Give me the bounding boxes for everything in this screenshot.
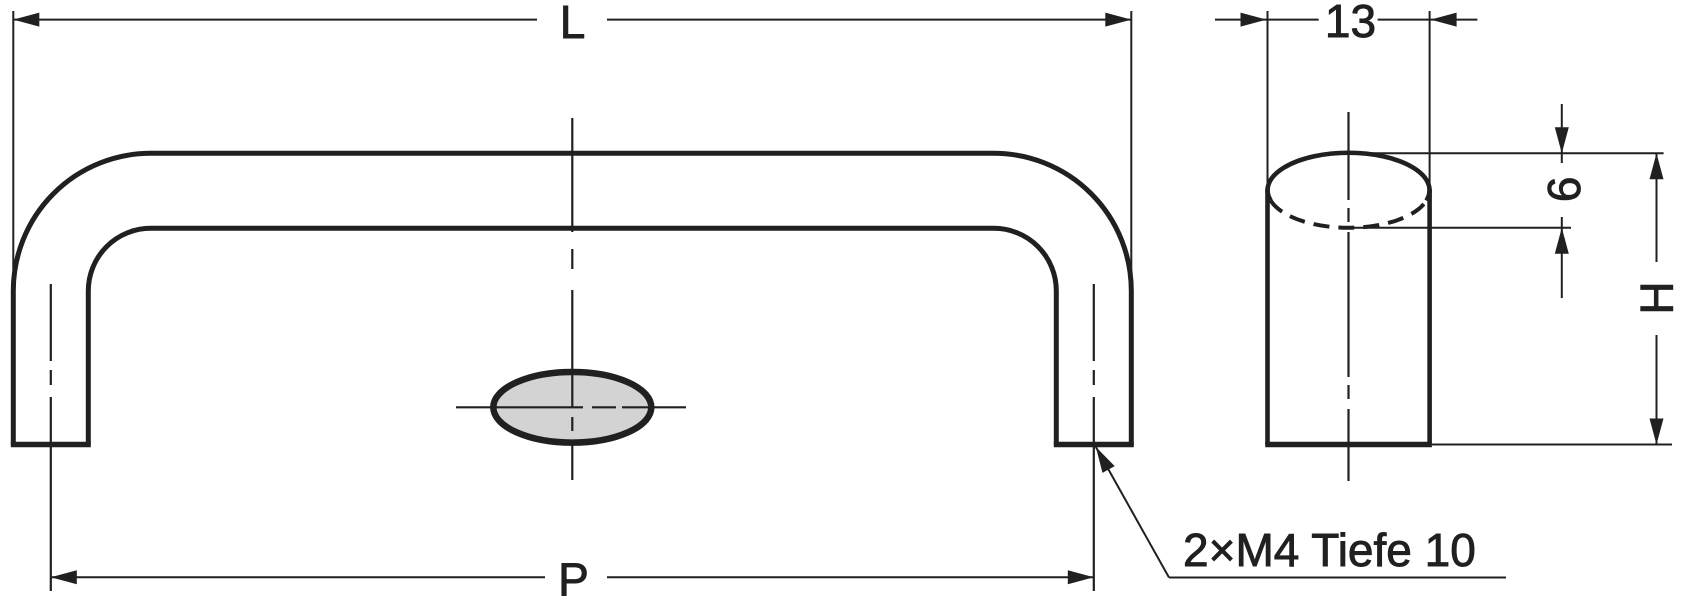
side view left edge bbox=[1265, 189, 1270, 445]
dimension P line left segment bbox=[51, 576, 545, 578]
screw hole ellipse (gray) bbox=[493, 372, 651, 443]
side view right edge bbox=[1427, 189, 1432, 445]
svg-text:6: 6 bbox=[1538, 177, 1590, 203]
dimension 13 line left (tail + inner segment) bbox=[1215, 19, 1319, 21]
dimension 6 bottom arrowhead (pointing up) bbox=[1555, 228, 1569, 254]
dimension H bottom arrowhead (pointing down) bbox=[1650, 419, 1664, 445]
side view hidden bottom arc (dashed) bbox=[1271, 201, 1427, 228]
side view top cap solid arc bbox=[1268, 153, 1430, 201]
dimension 6 bottom arrow tail bbox=[1561, 217, 1563, 298]
svg-text:13: 13 bbox=[1325, 0, 1376, 47]
dimension P right arrowhead bbox=[1068, 570, 1094, 584]
svg-text:L: L bbox=[560, 0, 586, 48]
dimension H line lower segment bbox=[1656, 335, 1658, 445]
side view vertical centerline bbox=[1347, 112, 1349, 481]
dimension H top arrowhead (pointing up) bbox=[1650, 153, 1664, 179]
svg-text:H: H bbox=[1631, 281, 1683, 314]
dimension 13 left arrowhead (pointing right) bbox=[1241, 13, 1267, 27]
screw hole horizontal centerline bbox=[456, 406, 686, 408]
svg-text:2×M4 Tiefe 10: 2×M4 Tiefe 10 bbox=[1183, 524, 1476, 576]
dimension 6 top arrowhead (pointing down) bbox=[1555, 127, 1569, 153]
dimension 6 top arrow tail bbox=[1561, 104, 1563, 163]
front view vertical centerline bbox=[571, 118, 573, 480]
leader line horizontal underline bbox=[1169, 577, 1506, 579]
dimension 13 extension line left bbox=[1267, 11, 1269, 186]
dimension P line right segment bbox=[607, 576, 1094, 578]
left leg bottom edge bbox=[11, 442, 91, 448]
dimension L line right segment bbox=[607, 19, 1131, 21]
dimension L right arrowhead bbox=[1105, 13, 1131, 27]
handle outline front view (inner contour) bbox=[88, 228, 1056, 444]
svg-text:P: P bbox=[558, 554, 589, 606]
dimension 13 extension line right bbox=[1429, 11, 1431, 186]
leader line diagonal bbox=[1096, 447, 1169, 578]
side view bottom edge bbox=[1265, 442, 1432, 448]
dimension H bottom extension line bbox=[1432, 444, 1672, 446]
dimension L left arrowhead bbox=[13, 13, 39, 27]
dimension L extension line right bbox=[1130, 11, 1132, 272]
dimension P left arrowhead bbox=[51, 570, 77, 584]
dimension L line left segment bbox=[13, 19, 537, 21]
dimension 6 bottom extension line (from hidden arc bottom) bbox=[1349, 227, 1572, 229]
left leg centerline / P extension line bbox=[50, 284, 52, 591]
dimension H line upper segment bbox=[1656, 153, 1658, 262]
right leg bottom edge bbox=[1054, 442, 1134, 448]
dimension L extension line left bbox=[12, 11, 14, 270]
dimension 6 top extension line (from cap apex) bbox=[1349, 152, 1664, 154]
handle outline front view (outer contour) bbox=[13, 153, 1131, 444]
leader arrowhead (to right leg bottom) bbox=[1096, 447, 1115, 473]
right leg centerline / P extension line bbox=[1093, 284, 1095, 591]
dimension 13 line right (inner segment + tail) bbox=[1378, 19, 1478, 21]
dimension 13 right arrowhead (pointing left) bbox=[1431, 13, 1457, 27]
